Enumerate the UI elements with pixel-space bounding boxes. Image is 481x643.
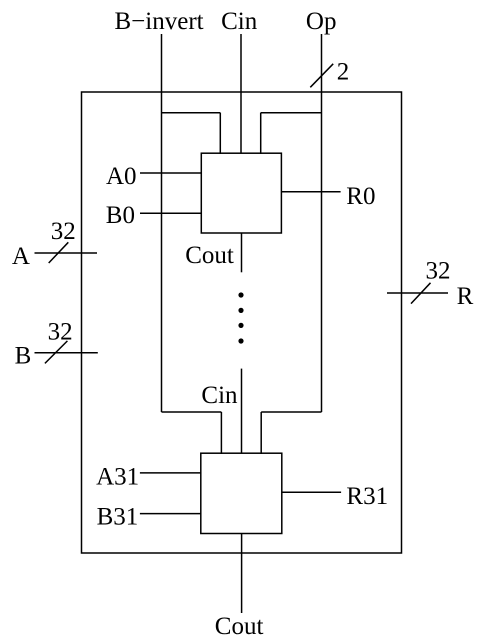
svg-text:Cin: Cin <box>201 382 238 409</box>
svg-text:32: 32 <box>51 218 76 245</box>
svg-text:A: A <box>12 243 30 270</box>
svg-text:A0: A0 <box>106 163 137 190</box>
svg-text:Op: Op <box>306 8 337 35</box>
svg-text:R: R <box>457 283 474 310</box>
svg-text:32: 32 <box>48 319 73 346</box>
svg-text:Cout: Cout <box>185 242 234 269</box>
svg-text:R0: R0 <box>346 183 375 210</box>
svg-text:32: 32 <box>426 258 451 285</box>
svg-text:A31: A31 <box>96 463 139 490</box>
svg-text:B0: B0 <box>106 202 135 229</box>
svg-text:R31: R31 <box>346 483 388 510</box>
svg-text:Cin: Cin <box>221 8 258 35</box>
svg-text:B31: B31 <box>97 503 139 530</box>
svg-text:B−invert: B−invert <box>115 8 204 35</box>
svg-text:Cout: Cout <box>215 613 264 640</box>
svg-text:2: 2 <box>337 59 350 86</box>
svg-text:B: B <box>15 343 32 370</box>
